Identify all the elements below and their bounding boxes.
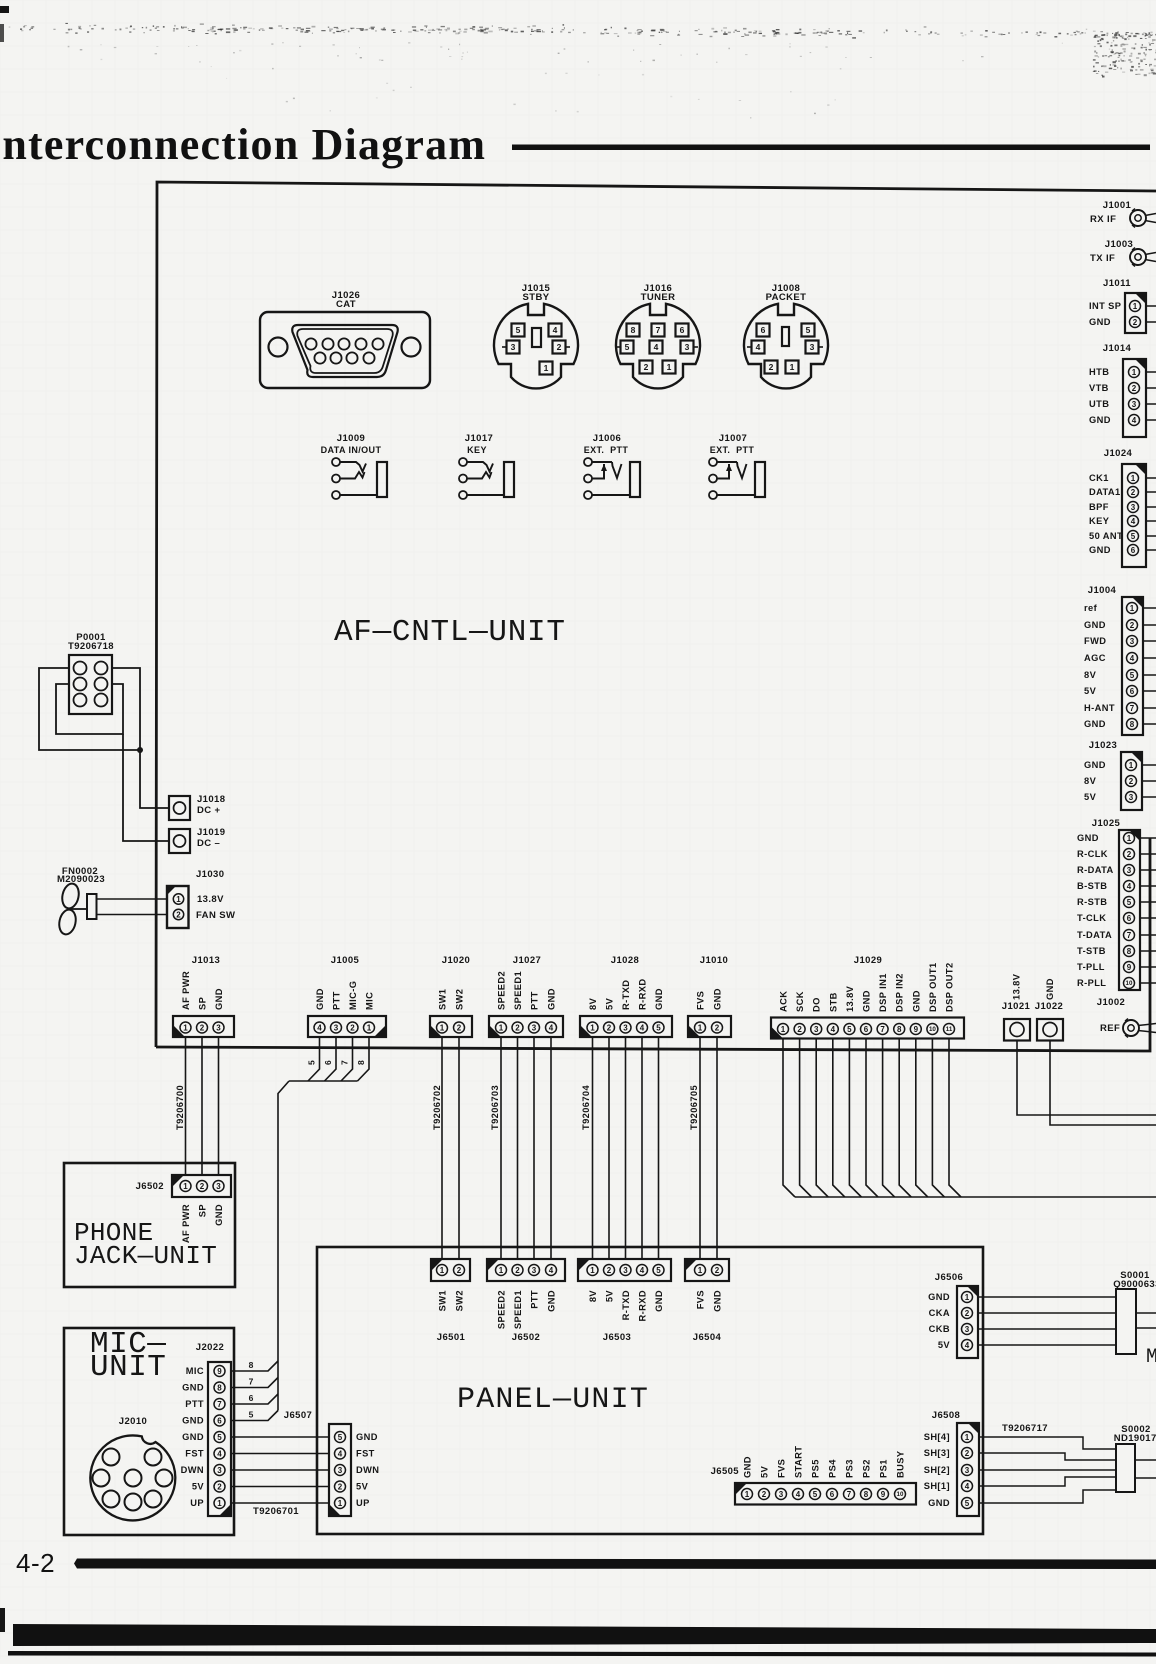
svg-text:SH[3]: SH[3]	[924, 1448, 950, 1458]
svg-text:7: 7	[1127, 931, 1132, 940]
svg-text:T9206703: T9206703	[490, 1085, 500, 1130]
svg-text:STBY: STBY	[523, 292, 550, 303]
svg-text:1: 1	[217, 1499, 222, 1508]
svg-text:DSP OUT2: DSP OUT2	[945, 962, 955, 1012]
svg-text:GND: GND	[214, 988, 224, 1010]
svg-text:FWD: FWD	[1084, 636, 1106, 646]
svg-text:2: 2	[715, 1266, 720, 1275]
svg-text:GND: GND	[1089, 317, 1111, 327]
svg-text:DSP OUT1: DSP OUT1	[928, 962, 938, 1012]
svg-text:10: 10	[897, 1491, 904, 1498]
svg-text:Interconnection Diagram: Interconnection Diagram	[0, 120, 486, 169]
svg-text:1: 1	[1132, 368, 1137, 377]
svg-text:J1010: J1010	[700, 955, 728, 966]
svg-text:3: 3	[1129, 793, 1134, 802]
svg-text:2: 2	[769, 362, 774, 372]
svg-text:J1029: J1029	[854, 955, 882, 966]
svg-text:SH[1]: SH[1]	[924, 1481, 950, 1491]
svg-text:1: 1	[183, 1182, 188, 1191]
svg-text:10: 10	[1126, 980, 1133, 987]
svg-text:EXT. PTT: EXT. PTT	[710, 445, 755, 455]
svg-text:GND: GND	[182, 1416, 204, 1426]
svg-text:R-CLK: R-CLK	[1077, 849, 1108, 859]
svg-text:J6506: J6506	[935, 1272, 963, 1283]
svg-text:2: 2	[715, 1023, 720, 1032]
svg-text:J1020: J1020	[442, 955, 470, 966]
svg-text:J1027: J1027	[513, 955, 541, 966]
svg-text:J1022: J1022	[1035, 1001, 1063, 1012]
svg-text:1: 1	[1129, 761, 1134, 770]
svg-text:3: 3	[810, 342, 815, 352]
svg-text:10: 10	[929, 1026, 936, 1033]
svg-text:AF PWR: AF PWR	[181, 1204, 191, 1243]
svg-text:BUSY: BUSY	[896, 1450, 906, 1478]
svg-text:PS4: PS4	[828, 1459, 838, 1478]
svg-text:J1011: J1011	[1103, 278, 1131, 289]
svg-text:3: 3	[216, 1023, 221, 1032]
svg-text:SW2: SW2	[455, 1290, 465, 1311]
svg-text:1: 1	[499, 1266, 504, 1275]
svg-text:J1024: J1024	[1104, 448, 1133, 459]
svg-text:J6502: J6502	[136, 1181, 164, 1192]
svg-text:8: 8	[897, 1025, 902, 1034]
svg-text:FVS: FVS	[777, 1459, 787, 1478]
svg-text:T9206701: T9206701	[253, 1506, 299, 1517]
svg-text:2: 2	[607, 1023, 612, 1032]
svg-text:5: 5	[847, 1025, 852, 1034]
svg-text:SH[4]: SH[4]	[924, 1432, 950, 1442]
svg-text:2: 2	[217, 1482, 222, 1491]
svg-text:T9206700: T9206700	[175, 1085, 185, 1130]
svg-text:T-PLL: T-PLL	[1077, 962, 1105, 972]
svg-text:4: 4	[549, 1023, 554, 1032]
svg-text:5: 5	[806, 325, 811, 335]
svg-text:DC +: DC +	[197, 805, 221, 816]
svg-text:FVS: FVS	[696, 1290, 706, 1309]
svg-text:DSP IN1: DSP IN1	[878, 973, 888, 1012]
svg-text:GND: GND	[1077, 833, 1099, 843]
svg-text:9: 9	[881, 1490, 886, 1499]
svg-text:2: 2	[644, 362, 649, 372]
svg-text:5: 5	[516, 325, 521, 335]
svg-text:J1013: J1013	[192, 955, 220, 966]
svg-text:T9206717: T9206717	[1002, 1423, 1048, 1434]
svg-text:SH[2]: SH[2]	[924, 1465, 950, 1475]
svg-text:5V: 5V	[605, 1290, 615, 1303]
svg-text:J1019: J1019	[197, 827, 225, 838]
svg-text:2: 2	[607, 1266, 612, 1275]
svg-text:1: 1	[1127, 834, 1132, 843]
svg-text:2: 2	[965, 1449, 970, 1458]
svg-text:3: 3	[623, 1023, 628, 1032]
svg-text:5V: 5V	[1084, 686, 1097, 696]
svg-text:AGC: AGC	[1084, 653, 1106, 663]
svg-text:6: 6	[761, 325, 766, 335]
svg-text:1: 1	[590, 1266, 595, 1275]
svg-text:PS1: PS1	[879, 1459, 889, 1478]
svg-text:8: 8	[864, 1490, 869, 1499]
svg-text:3: 3	[511, 342, 516, 352]
svg-text:SPEED1: SPEED1	[513, 1290, 523, 1329]
svg-text:J2022: J2022	[196, 1342, 224, 1353]
svg-text:4: 4	[965, 1341, 970, 1350]
svg-text:PTT: PTT	[530, 1290, 540, 1309]
svg-text:ref: ref	[1084, 603, 1098, 613]
svg-text:M: M	[1146, 1346, 1156, 1369]
svg-text:FVS: FVS	[696, 991, 706, 1010]
svg-text:3: 3	[814, 1025, 819, 1034]
svg-text:2: 2	[965, 1309, 970, 1318]
svg-text:J1006: J1006	[593, 433, 621, 444]
svg-text:SPEED2: SPEED2	[497, 1290, 507, 1329]
svg-text:J6501: J6501	[437, 1332, 466, 1343]
svg-text:4: 4	[217, 1449, 222, 1458]
svg-text:5: 5	[625, 342, 630, 352]
svg-text:CK1: CK1	[1089, 473, 1109, 483]
svg-text:SW2: SW2	[455, 989, 465, 1010]
svg-text:3: 3	[685, 342, 690, 352]
svg-text:M2090023: M2090023	[57, 874, 105, 885]
svg-text:FST: FST	[356, 1449, 375, 1459]
svg-text:STB: STB	[828, 992, 838, 1012]
svg-text:1: 1	[965, 1433, 970, 1442]
svg-text:UNIT: UNIT	[90, 1350, 166, 1385]
svg-text:1: 1	[499, 1023, 504, 1032]
svg-text:J1021: J1021	[1002, 1001, 1031, 1012]
svg-text:1: 1	[965, 1293, 970, 1302]
svg-text:4: 4	[654, 342, 659, 352]
svg-text:MIC: MIC	[365, 992, 375, 1010]
svg-text:1: 1	[781, 1025, 786, 1034]
svg-text:1: 1	[544, 363, 549, 373]
svg-text:PTT: PTT	[332, 991, 342, 1010]
svg-text:START: START	[794, 1446, 804, 1478]
svg-text:7: 7	[249, 1377, 254, 1387]
svg-text:J6503: J6503	[603, 1332, 631, 1343]
svg-text:J1030: J1030	[196, 869, 224, 880]
svg-text:3: 3	[1131, 503, 1136, 512]
svg-text:4: 4	[338, 1449, 343, 1458]
svg-text:3: 3	[1132, 400, 1137, 409]
svg-text:BPF: BPF	[1089, 502, 1109, 512]
svg-text:5V: 5V	[760, 1465, 770, 1478]
svg-text:2: 2	[1130, 621, 1135, 630]
svg-text:SW1: SW1	[438, 1290, 448, 1311]
svg-text:13.8V: 13.8V	[1012, 973, 1022, 1000]
svg-text:JACK—UNIT: JACK—UNIT	[74, 1241, 217, 1271]
svg-text:3: 3	[217, 1466, 222, 1475]
svg-text:6: 6	[1130, 687, 1135, 696]
svg-text:6: 6	[830, 1490, 835, 1499]
svg-text:DSP IN2: DSP IN2	[895, 973, 905, 1012]
svg-text:1: 1	[1130, 604, 1135, 613]
svg-text:HTB: HTB	[1089, 367, 1109, 377]
svg-text:2: 2	[1131, 488, 1136, 497]
svg-text:T9206705: T9206705	[689, 1085, 699, 1130]
svg-text:4: 4	[1132, 416, 1137, 425]
svg-text:GND: GND	[182, 1383, 204, 1393]
svg-text:3: 3	[338, 1466, 343, 1475]
svg-text:8: 8	[217, 1383, 222, 1392]
svg-text:2: 2	[200, 1182, 205, 1191]
svg-text:KEY: KEY	[467, 445, 487, 455]
svg-text:6: 6	[217, 1416, 222, 1425]
svg-text:GND: GND	[928, 1498, 950, 1508]
svg-text:PTT: PTT	[530, 991, 540, 1010]
svg-text:J1009: J1009	[337, 433, 365, 444]
svg-text:GND: GND	[713, 988, 723, 1010]
svg-text:8V: 8V	[1084, 776, 1097, 786]
svg-text:1: 1	[698, 1266, 703, 1275]
svg-text:Q9000633: Q9000633	[1113, 1279, 1156, 1290]
svg-text:2: 2	[1133, 318, 1138, 327]
svg-text:DATA1: DATA1	[1089, 487, 1121, 497]
svg-text:MIC: MIC	[186, 1366, 204, 1376]
svg-text:5: 5	[1127, 898, 1132, 907]
svg-text:PS2: PS2	[862, 1459, 872, 1478]
svg-text:J6508: J6508	[932, 1410, 960, 1421]
svg-text:FST: FST	[185, 1449, 204, 1459]
svg-text:1: 1	[667, 362, 672, 372]
svg-text:13.8V: 13.8V	[845, 985, 855, 1012]
svg-text:9: 9	[1127, 963, 1132, 972]
svg-text:6: 6	[864, 1025, 869, 1034]
svg-text:MIC-G: MIC-G	[348, 981, 358, 1010]
svg-text:2: 2	[1129, 777, 1134, 786]
svg-text:AF PWR: AF PWR	[181, 971, 191, 1010]
svg-text:EXT. PTT: EXT. PTT	[584, 445, 629, 455]
svg-text:J2010: J2010	[119, 1416, 147, 1427]
svg-text:8: 8	[249, 1360, 254, 1370]
svg-text:RX IF: RX IF	[1090, 214, 1116, 225]
svg-text:DO: DO	[812, 997, 822, 1012]
svg-text:GND: GND	[547, 1290, 557, 1312]
svg-text:1: 1	[440, 1266, 445, 1275]
svg-text:T-CLK: T-CLK	[1077, 913, 1106, 923]
svg-text:T9206704: T9206704	[581, 1084, 591, 1130]
svg-text:5: 5	[813, 1490, 818, 1499]
svg-text:3: 3	[216, 1182, 221, 1191]
svg-text:PS3: PS3	[845, 1459, 855, 1478]
svg-text:3: 3	[623, 1266, 628, 1275]
svg-text:2: 2	[176, 910, 181, 919]
svg-text:GND: GND	[928, 1292, 950, 1302]
svg-text:TUNER: TUNER	[641, 292, 676, 303]
svg-text:5: 5	[1131, 532, 1136, 541]
svg-text:J1004: J1004	[1088, 585, 1117, 596]
svg-text:SP: SP	[198, 1204, 208, 1217]
svg-text:R-STB: R-STB	[1077, 897, 1107, 907]
svg-text:2: 2	[350, 1023, 355, 1032]
svg-text:UP: UP	[190, 1498, 204, 1508]
svg-text:J6507: J6507	[284, 1410, 312, 1421]
svg-text:GND: GND	[654, 1290, 664, 1312]
svg-text:2: 2	[557, 342, 562, 352]
svg-text:8: 8	[356, 1060, 366, 1065]
svg-text:ACK: ACK	[779, 991, 789, 1012]
svg-text:SPEED1: SPEED1	[513, 971, 523, 1010]
svg-text:CKA: CKA	[929, 1308, 950, 1318]
svg-text:3: 3	[532, 1266, 537, 1275]
svg-text:7: 7	[340, 1060, 350, 1065]
svg-text:1: 1	[1133, 302, 1138, 311]
svg-text:T-STB: T-STB	[1077, 946, 1106, 956]
svg-text:7: 7	[847, 1490, 852, 1499]
svg-text:2: 2	[338, 1482, 343, 1491]
svg-text:2: 2	[515, 1023, 520, 1032]
svg-text:13.8V: 13.8V	[197, 894, 224, 905]
svg-text:1: 1	[790, 362, 795, 372]
svg-text:1: 1	[440, 1023, 445, 1032]
svg-text:3: 3	[1127, 866, 1132, 875]
svg-text:2: 2	[200, 1023, 205, 1032]
svg-text:INT SP: INT SP	[1089, 301, 1121, 311]
svg-text:4: 4	[553, 325, 558, 335]
svg-text:8V: 8V	[588, 997, 598, 1010]
svg-text:1: 1	[745, 1490, 750, 1499]
svg-text:1: 1	[338, 1499, 343, 1508]
svg-text:GND: GND	[1084, 719, 1106, 729]
svg-text:T-DATA: T-DATA	[1077, 930, 1112, 940]
svg-text:5: 5	[965, 1499, 970, 1508]
svg-text:8: 8	[631, 325, 636, 335]
svg-text:GND: GND	[713, 1290, 723, 1312]
svg-text:1: 1	[590, 1023, 595, 1032]
svg-text:GND: GND	[1089, 545, 1111, 555]
svg-text:GND: GND	[214, 1204, 224, 1226]
svg-text:J1023: J1023	[1089, 740, 1117, 751]
svg-text:J1007: J1007	[719, 433, 747, 444]
svg-text:6: 6	[680, 325, 685, 335]
svg-text:REF: REF	[1100, 1023, 1120, 1034]
svg-text:1: 1	[183, 1023, 188, 1032]
svg-text:4: 4	[965, 1482, 970, 1491]
svg-text:11: 11	[946, 1026, 953, 1033]
svg-text:T9206702: T9206702	[432, 1085, 442, 1130]
svg-text:8: 8	[1127, 947, 1132, 956]
svg-text:J1025: J1025	[1092, 818, 1121, 829]
svg-text:5: 5	[249, 1410, 254, 1420]
svg-text:5: 5	[307, 1060, 317, 1065]
svg-text:2: 2	[762, 1490, 767, 1499]
svg-text:6: 6	[1127, 914, 1132, 923]
svg-text:2: 2	[797, 1025, 802, 1034]
svg-text:TX IF: TX IF	[1090, 253, 1115, 264]
svg-text:5: 5	[656, 1266, 661, 1275]
svg-text:PS5: PS5	[811, 1459, 821, 1478]
svg-text:T9206718: T9206718	[68, 641, 114, 652]
svg-text:2: 2	[515, 1266, 520, 1275]
svg-text:PTT: PTT	[185, 1399, 204, 1409]
svg-text:J6505: J6505	[711, 1466, 740, 1477]
svg-text:2: 2	[1132, 384, 1137, 393]
svg-text:5: 5	[656, 1023, 661, 1032]
svg-text:4: 4	[640, 1266, 645, 1275]
svg-text:CAT: CAT	[336, 299, 356, 310]
svg-text:5: 5	[217, 1433, 222, 1442]
svg-text:3: 3	[965, 1325, 970, 1334]
svg-text:4: 4	[796, 1490, 801, 1499]
svg-text:GND: GND	[182, 1432, 204, 1442]
svg-text:1: 1	[176, 895, 181, 904]
svg-text:2: 2	[1127, 850, 1132, 859]
svg-text:7: 7	[880, 1025, 885, 1034]
svg-text:GND: GND	[862, 990, 872, 1012]
svg-text:J1018: J1018	[197, 794, 225, 805]
svg-text:R-TXD: R-TXD	[621, 1290, 631, 1320]
svg-text:5: 5	[1130, 671, 1135, 680]
svg-text:GND: GND	[743, 1456, 753, 1478]
svg-text:DWN: DWN	[181, 1465, 204, 1475]
svg-text:PANEL—UNIT: PANEL—UNIT	[457, 1383, 649, 1417]
svg-text:4: 4	[317, 1023, 322, 1032]
svg-text:FAN SW: FAN SW	[196, 910, 235, 921]
svg-text:H-ANT: H-ANT	[1084, 703, 1115, 713]
svg-text:GND: GND	[911, 990, 921, 1012]
svg-text:4: 4	[1127, 882, 1132, 891]
svg-text:GND: GND	[547, 988, 557, 1010]
svg-text:8V: 8V	[588, 1290, 598, 1303]
svg-text:4: 4	[640, 1023, 645, 1032]
svg-text:6: 6	[1131, 546, 1136, 555]
svg-text:3: 3	[965, 1466, 970, 1475]
svg-text:R-PLL: R-PLL	[1077, 978, 1106, 988]
svg-text:KEY: KEY	[1089, 516, 1110, 526]
svg-text:3: 3	[532, 1023, 537, 1032]
svg-text:R-RXD: R-RXD	[638, 979, 648, 1010]
svg-text:SCK: SCK	[795, 991, 805, 1012]
svg-text:4-2: 4-2	[16, 1548, 55, 1578]
svg-text:J1017: J1017	[465, 433, 493, 444]
svg-text:9: 9	[217, 1367, 222, 1376]
svg-text:GND: GND	[1084, 760, 1106, 770]
svg-text:J6502: J6502	[512, 1332, 540, 1343]
svg-text:5V: 5V	[192, 1482, 205, 1492]
svg-text:GND: GND	[356, 1432, 378, 1442]
svg-text:AF—CNTL—UNIT: AF—CNTL—UNIT	[334, 615, 566, 650]
svg-text:5V: 5V	[938, 1340, 951, 1350]
svg-text:SP: SP	[198, 997, 208, 1010]
svg-text:J1028: J1028	[611, 955, 639, 966]
svg-text:ND190173: ND190173	[1114, 1433, 1156, 1444]
svg-text:PACKET: PACKET	[766, 292, 807, 303]
svg-text:GND: GND	[1045, 978, 1055, 1000]
svg-text:SW1: SW1	[438, 989, 448, 1010]
svg-text:5V: 5V	[356, 1482, 369, 1492]
svg-text:50 ANT: 50 ANT	[1089, 531, 1123, 541]
svg-text:2: 2	[457, 1266, 462, 1275]
svg-text:3: 3	[779, 1490, 784, 1499]
svg-text:GND: GND	[1089, 415, 1111, 425]
svg-text:5: 5	[338, 1433, 343, 1442]
svg-text:CKB: CKB	[929, 1324, 950, 1334]
svg-text:DC –: DC –	[197, 838, 220, 849]
svg-text:GND: GND	[1084, 620, 1106, 630]
svg-text:J1001: J1001	[1103, 200, 1132, 211]
svg-text:2: 2	[457, 1023, 462, 1032]
svg-text:5V: 5V	[605, 997, 615, 1010]
svg-text:B-STB: B-STB	[1077, 881, 1107, 891]
svg-text:7: 7	[656, 325, 661, 335]
svg-text:J1003: J1003	[1105, 239, 1133, 250]
svg-text:1: 1	[698, 1023, 703, 1032]
svg-text:7: 7	[217, 1400, 222, 1409]
svg-text:R-TXD: R-TXD	[621, 980, 631, 1010]
svg-text:6: 6	[249, 1393, 254, 1403]
svg-text:J1002: J1002	[1097, 997, 1125, 1008]
svg-text:R-DATA: R-DATA	[1077, 865, 1114, 875]
svg-text:4: 4	[1131, 517, 1136, 526]
